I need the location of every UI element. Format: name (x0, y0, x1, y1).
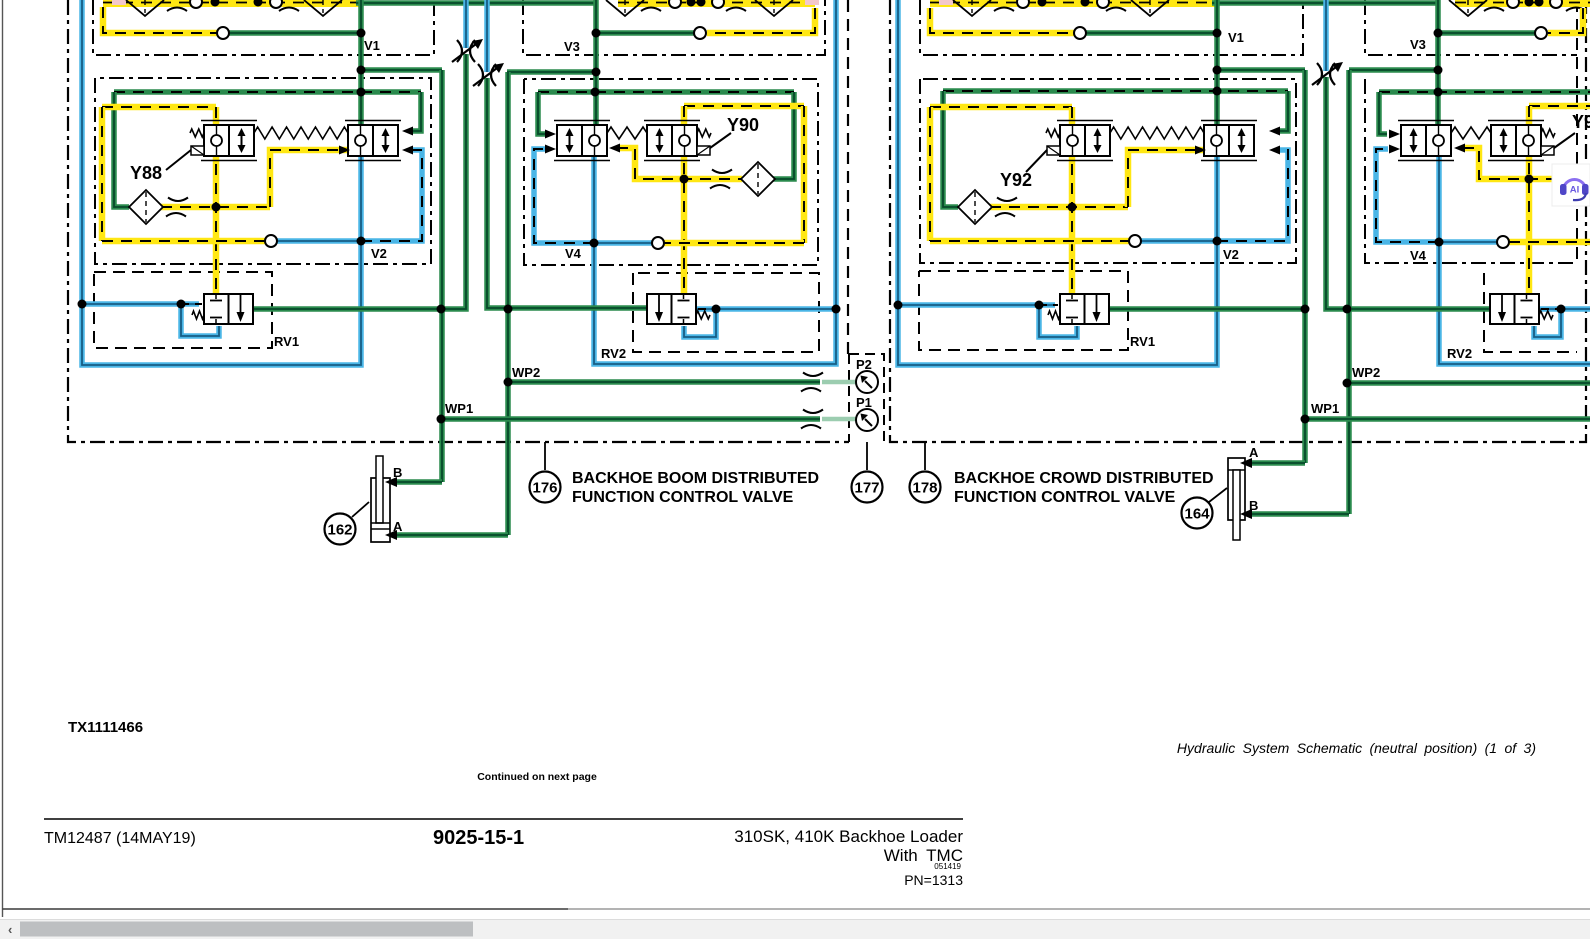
svg-text:176: 176 (532, 480, 557, 497)
wire pilot to main spool col3 (1128, 150, 1206, 207)
wire yellow right vertical col2 (801, 106, 808, 243)
spring between spools col4 (1451, 127, 1491, 139)
spring col2 right valve (697, 129, 711, 137)
solenoid Y94 (1541, 146, 1554, 155)
svg-text:Continued on next page: Continued on next page (477, 771, 597, 783)
relief valve RV1 col1 (204, 294, 253, 324)
node RV2 loop junction col4 (1557, 305, 1566, 314)
check ball V3 col4 (1535, 27, 1547, 39)
wire cylinder A riser col3 (1302, 70, 1308, 463)
wire RV1 drain loop col1 (181, 304, 219, 336)
check ball V1 col3 (1074, 27, 1086, 39)
wire WP2 box A (508, 379, 820, 385)
node V2 top junction col3 (1213, 87, 1222, 96)
filter half col3 a (953, 0, 991, 16)
svg-text:TM12487 (14MAY19): TM12487 (14MAY19) (44, 830, 196, 847)
wire Y92 pilot vertical col3 (1069, 107, 1076, 294)
check ball V2 col3 (1129, 235, 1141, 247)
junction col2 top a (687, 0, 696, 7)
wire RV2 outlet col4 (1539, 306, 1590, 312)
wire coupling cyan stub A1 (463, 0, 469, 48)
junction col2 top b (697, 0, 706, 7)
pilot operated valve col3 left (Y92 spool) (1057, 121, 1113, 161)
svg-text:P1: P1 (856, 395, 872, 410)
wire Y90 pilot top col2 (684, 103, 804, 110)
wire Y92 pilot top col3 (930, 104, 1072, 111)
node pilot junction col4 (1525, 175, 1534, 184)
junction col1 top a (211, 0, 220, 7)
svg-text:WP2: WP2 (512, 365, 540, 380)
wire WP1 box B (1305, 416, 1590, 422)
wire main supply vertical col1 upper (358, 0, 364, 125)
svg-text:310SK, 410K Backhoe Loader: 310SK, 410K Backhoe Loader (734, 827, 963, 846)
quick coupling col2 (473, 63, 504, 86)
restrictor arcs col3 top a (994, 0, 1016, 11)
node RV2 loop junction col2 (712, 305, 721, 314)
svg-text:RV2: RV2 (1447, 346, 1472, 361)
top yellow band black dash col1 (103, 2, 360, 4)
V2 section box col3 (920, 79, 1296, 263)
svg-text:A: A (393, 519, 403, 534)
wire main cyan vertical col2 (591, 156, 597, 243)
check ball col4 top b (1550, 0, 1562, 8)
filter half col1 b (304, 0, 342, 16)
check ball V1 col1 (217, 27, 229, 39)
port arrow cyan col1 (402, 146, 413, 155)
check ball col1 top a (190, 0, 202, 8)
svg-text:051419: 051419 (934, 862, 961, 871)
wire filter riser col2 (773, 92, 794, 179)
V4 section box col2 (524, 79, 818, 265)
wire Y94 pilot vertical col4 (1526, 106, 1533, 294)
wire V2 top dashed green col3 (943, 88, 1288, 94)
wire pilot yellow V1 col1 (103, 7, 217, 33)
svg-text:WP2: WP2 (1352, 365, 1380, 380)
spring RV1 col3 (1048, 311, 1060, 319)
node RV1 out junction col3 (1301, 305, 1310, 314)
wire Y88 pilot top col1 (102, 104, 216, 111)
spring col1 left valve (190, 129, 204, 137)
cylinder 164 (backhoe crowd) (1228, 458, 1245, 540)
RV2 box col4 (1484, 273, 1577, 352)
restrictor col3 V2 (995, 198, 1017, 217)
cylinder 162 (backhoe boom) (371, 456, 390, 542)
pilot operated valve col4 right (Y94 spool) (1488, 121, 1544, 161)
leader 176 (544, 442, 546, 470)
wire pilot to main spool col4 (1463, 148, 1590, 179)
svg-text:V4: V4 (565, 246, 582, 261)
wire V4 top dashed green col4 (1379, 89, 1590, 95)
node bottom junction col2 (590, 239, 599, 248)
wire pilot to main spool col2 (617, 148, 742, 179)
pink component stub col2 (805, 0, 819, 5)
svg-text:RV2: RV2 (601, 346, 626, 361)
junction col4 top a (1525, 0, 1534, 7)
leader 178 (924, 442, 926, 470)
node RV1 out junction (437, 305, 446, 314)
svg-text:V1: V1 (364, 38, 380, 53)
col4 sub-box right dashed edge (1576, 0, 1578, 263)
callout 164 (1182, 498, 1213, 529)
wire RV2 outlet dashed part col2 (698, 308, 716, 310)
wire RV1 inlet col3 (898, 302, 1055, 308)
node RV1 inlet junction col1 (78, 300, 87, 309)
restrictor arcs col3 top b (1106, 0, 1128, 11)
wire V4 top dashed green col2 (538, 89, 794, 95)
port arrow yellow into main spool col3 (1195, 146, 1206, 155)
restrictor WP1 (801, 410, 823, 429)
wire RV1 inlet dashed part col3 (1039, 304, 1058, 306)
restrictor arcs col1 top b (279, 0, 301, 11)
wire RV1 drain loop col3 (1039, 305, 1077, 337)
spring between spools col3 (1110, 127, 1204, 139)
wire bottom cyan col4 (1439, 239, 1497, 245)
wire to V4 port col2 (538, 92, 546, 134)
svg-text:V1: V1 (1228, 30, 1244, 45)
port arrow green col2 (545, 130, 556, 139)
callout 177 (852, 472, 883, 503)
wire dashed cyan to port col2 (534, 149, 594, 243)
pilot operated valve col1 left (Y88 spool) (201, 121, 257, 161)
wire WP1 box A (441, 416, 820, 422)
solenoid Y90 (697, 146, 710, 155)
node V4 top junction col2 (591, 88, 600, 97)
check ball col4 top a (1507, 0, 1519, 8)
pink component stub col1 (112, 0, 126, 5)
wire work port V1 col1 (229, 30, 361, 36)
port arrow cyan col3 (1269, 146, 1280, 155)
svg-text:Y92: Y92 (1000, 170, 1032, 190)
wire V2 left green drop col3 (943, 91, 958, 207)
check ball V2 col1 (265, 235, 277, 247)
svg-text:B: B (393, 465, 402, 480)
spring between spools col2 (607, 127, 647, 139)
wire coupling cyan stub A2 (484, 0, 490, 72)
check ball col3 top a (1017, 0, 1029, 8)
callout 162 (325, 514, 356, 545)
pilot operated valve col2 right (Y90 spool) (644, 121, 700, 161)
filter F col2 (741, 162, 775, 196)
svg-text:B: B (1249, 498, 1258, 513)
node pilot junction col1 (212, 203, 221, 212)
wire filter to pilot col3 (990, 204, 1128, 211)
wire V3 to outer link col2 (507, 69, 596, 75)
svg-text:AI: AI (1570, 185, 1580, 196)
svg-text:WP1: WP1 (445, 401, 473, 416)
wire work port V1 col3 (1086, 30, 1217, 36)
svg-text:V3: V3 (564, 39, 580, 54)
quick coupling col1 (452, 39, 483, 62)
leader Y92 (1026, 150, 1047, 172)
wire V1 to outer link col3 (1217, 67, 1305, 73)
junction col3 top b (1081, 0, 1090, 7)
svg-text:V3: V3 (1410, 37, 1426, 52)
wire work port V3 col4 (1438, 30, 1535, 36)
junction col4 top b (1535, 0, 1544, 7)
filter F col3 (958, 190, 992, 224)
port arrow cyan col4 (1389, 145, 1400, 154)
box A right dashed border (847, 0, 849, 354)
restrictor arcs col2 top b (726, 0, 748, 11)
check ball V4 col4 (1497, 236, 1509, 248)
node bottom junction col4 (1435, 238, 1444, 247)
wire RV1 out col3 (1109, 306, 1305, 312)
crowd control valve outer boundary box B (890, 0, 1586, 442)
footer rule (44, 818, 963, 820)
svg-text:RV1: RV1 (1130, 334, 1155, 349)
wire return loop col4 (1439, 242, 1590, 364)
wire pump supply link col3-col4 top (1212, 0, 1438, 6)
pressure test port box P1 P2 (849, 354, 884, 442)
svg-text:FUNCTION CONTROL VALVE: FUNCTION CONTROL VALVE (572, 489, 794, 506)
svg-text:A: A (1249, 445, 1259, 460)
spring col4 right valve (1541, 129, 1555, 137)
node link junction col1 (357, 66, 366, 75)
spring RV2 col4 (1539, 311, 1553, 319)
node WP2 junction box B (1343, 379, 1352, 388)
wire RV1 inlet dashed part col1 (181, 303, 202, 305)
wire WP1 faded (822, 417, 857, 422)
RV1 box col1 (94, 272, 272, 348)
node WP1 junction box A (437, 415, 446, 424)
relief valve RV2 col2 (647, 294, 696, 324)
check ball col1 top b (270, 0, 282, 8)
wire bottom yellow col1 (102, 238, 265, 245)
wire RV2 outlet col2 (696, 306, 836, 312)
wire bottom yellow col3 (930, 238, 1129, 245)
wire pilot to main spool col1 (270, 150, 350, 207)
wire bottom yellow col4 (1509, 239, 1590, 246)
main spool valve col1 (boom section 1) (345, 121, 401, 161)
wire to V4 port col4 (1379, 92, 1387, 134)
restrictor col2 V4 (710, 170, 732, 189)
svg-text:PN=1313: PN=1313 (904, 872, 963, 888)
solenoid Y92 (1047, 146, 1060, 155)
node RV1 loop junction col1 (177, 300, 186, 309)
node bottom junction col1 (357, 237, 366, 246)
arrow into 164 port B (1240, 509, 1252, 519)
wire yellow left vertical col1 (99, 107, 106, 241)
wire main supply vertical col2 upper (593, 0, 599, 125)
top yellow pilot band col2 (618, 0, 815, 7)
relief valve RV2 col4 (1490, 294, 1539, 324)
V1 section box col3 (920, 0, 1303, 55)
wire RV2 drain loop col4 (1534, 309, 1561, 337)
restrictor WP2 (801, 373, 823, 392)
junction col1 top b (254, 0, 263, 7)
wire cylinder A riser col2 (505, 72, 511, 535)
svg-text:P2: P2 (856, 357, 872, 372)
node V1 junction col3 (1213, 29, 1222, 38)
wire V2 top dashed green col1 (114, 89, 421, 95)
svg-text:BACKHOE CROWD DISTRIBUTED: BACKHOE CROWD DISTRIBUTED (954, 470, 1214, 487)
node WP2 junction box A (504, 378, 513, 387)
V1 section box col1 (93, 0, 434, 55)
svg-text:WP1: WP1 (1311, 401, 1339, 416)
wire WP2 box B (1349, 380, 1590, 386)
leader 164 (1209, 488, 1227, 502)
wire coupling cyan stub B1 (1323, 0, 1329, 71)
port arrow yellow into main spool col1 (339, 146, 350, 155)
filter half col2 b (755, 0, 793, 16)
node RV1 inlet junction col3 (894, 301, 903, 310)
page frame bottom border (3, 908, 569, 910)
wire filter to pilot col1 (161, 204, 270, 211)
port arrow yellow into main spool col4 (1454, 144, 1465, 153)
V2 section box col1 (95, 78, 431, 264)
wire main cyan vertical col1 (358, 156, 364, 241)
wire to V2 port B col1 (413, 92, 421, 131)
wire main supply vertical col4 upper (1435, 0, 1441, 125)
node link junction col3 (1213, 66, 1222, 75)
spring col3 left valve (1046, 129, 1060, 137)
check ball V4 col2 (652, 237, 664, 249)
wire main cyan vertical col3 (1214, 156, 1220, 241)
svg-text:FUNCTION CONTROL VALVE: FUNCTION CONTROL VALVE (954, 489, 1176, 506)
wire V1 to outer link col1 (361, 67, 442, 73)
V4 section box col4 (1365, 79, 1577, 263)
wire bottom cyan col2 (594, 240, 652, 246)
wire dashed cyan to port A col3 (1217, 150, 1288, 241)
svg-text:178: 178 (912, 480, 937, 497)
wire pilot yellow V3 col2 (707, 8, 815, 33)
wire to cylinder 162 port A (392, 532, 508, 538)
pressure gauge P2 (856, 371, 878, 393)
wire Y88 pilot vertical col1 (213, 107, 220, 294)
wire yellow left vertical col3 (927, 107, 934, 241)
wire RV1 out to coupling col1 (253, 54, 466, 309)
callout 178 (910, 472, 941, 503)
restrictor arcs col1 top a (167, 0, 189, 11)
node bottom junction col3 (1213, 237, 1222, 246)
restrictor arcs col4 top b (1566, 0, 1588, 11)
arrow into 162 port B (385, 477, 397, 487)
node V2 top junction col1 (357, 88, 366, 97)
wire to cylinder 164 port A (1247, 460, 1305, 466)
top yellow pilot band col1 (103, 0, 360, 7)
wire return loop col3 (898, 0, 1217, 365)
svg-text:‹: ‹ (8, 922, 12, 937)
node pilot junction col3 (1068, 203, 1077, 212)
wire dashed cyan to port A col1 (361, 150, 422, 241)
node V1 junction col1 (357, 29, 366, 38)
filter half col1 a (126, 0, 164, 16)
svg-text:BACKHOE BOOM DISTRIBUTED: BACKHOE BOOM DISTRIBUTED (572, 470, 819, 487)
port arrow green col1 (402, 127, 413, 136)
wire V2 left green drop col1 (114, 92, 129, 207)
main spool valve col2 (boom section 2) (554, 121, 610, 161)
top yellow pilot band col3 (930, 0, 1217, 7)
port arrow green col3 (1269, 127, 1280, 136)
AI chat widget overlay (1552, 164, 1590, 206)
boom control valve outer boundary box A (68, 0, 849, 442)
wire to cylinder 164 port B (1247, 511, 1349, 517)
wire dashed cyan to port col4 (1376, 149, 1439, 242)
svg-text:Y88: Y88 (130, 163, 162, 183)
junction col3 top a (1038, 0, 1047, 7)
callout 176 (530, 472, 561, 503)
main spool valve col4 (crowd section 2) (1398, 121, 1454, 161)
svg-text:TX1111466: TX1111466 (68, 719, 143, 736)
wire pilot yellow V1 col3 (930, 8, 1074, 33)
wire V3 to outer link col4 (1349, 67, 1438, 73)
main spool valve col3 (crowd section 1) (1201, 121, 1257, 161)
svg-text:162: 162 (327, 522, 352, 539)
wire main supply vertical col3 upper (1214, 0, 1220, 125)
scrollbar thumb (20, 922, 473, 937)
restrictor arcs col2 top a (641, 0, 663, 11)
wire return loop col2 (594, 0, 836, 364)
pressure gauge P1 (856, 409, 878, 431)
node WP1 junction box B (1301, 415, 1310, 424)
svg-text:Y9: Y9 (1572, 112, 1590, 132)
node RV2 out junction col2 (832, 305, 841, 314)
V3 section box col2 (523, 0, 825, 55)
wire RV2 drain loop col2 (684, 309, 716, 337)
check ball col3 top b (1097, 0, 1109, 8)
svg-text:V4: V4 (1410, 248, 1427, 263)
check ball V3 col2 (694, 27, 706, 39)
svg-text:164: 164 (1184, 506, 1210, 523)
RV2 box col2 (633, 273, 819, 352)
svg-text:9025-15-1: 9025-15-1 (433, 827, 524, 849)
svg-text:Hydraulic System Schematic (ne: Hydraulic System Schematic (neutral posi… (1177, 740, 1536, 756)
svg-text:177: 177 (854, 480, 879, 497)
filter half col2 a (606, 0, 644, 16)
wire cylinder B riser col1 (439, 70, 445, 482)
wire bottom cyan col3 (1141, 238, 1217, 244)
check ball col2 top a (669, 0, 681, 8)
wire work port V3 col2 (596, 30, 694, 36)
spring between spools col1 (254, 127, 348, 139)
filter F col1 (129, 190, 163, 224)
leader Y90 (710, 133, 731, 148)
leader 162 (352, 502, 369, 517)
wire Y94 pilot top col4 (1529, 103, 1590, 110)
node V3 junction col2 (592, 29, 601, 38)
solenoid Y88 (191, 146, 204, 155)
leader Y94 (1554, 133, 1575, 148)
port arrow green col4 (1389, 130, 1400, 139)
leader Y88 (166, 150, 191, 170)
svg-text:V2: V2 (371, 246, 387, 261)
wire pilot yellow V3 col4 (1548, 8, 1583, 33)
filter half col3 b (1131, 0, 1169, 16)
RV1 box col3 (919, 271, 1128, 350)
node RV2 in junction (504, 305, 513, 314)
node RV2 in junction col4 (1343, 305, 1352, 314)
port arrow cyan col2 (545, 145, 556, 154)
wire cylinder B riser col4 (1346, 70, 1352, 514)
wire coupling to RV2 col4 (1326, 77, 1492, 309)
wire WP2 faded (822, 380, 857, 385)
node link junction col2 (592, 68, 601, 77)
svg-text:Y90: Y90 (727, 115, 759, 135)
restrictor arcs col4 top a (1484, 0, 1506, 11)
quick coupling col4 (1312, 62, 1343, 85)
top yellow pilot band col4 (1455, 0, 1590, 7)
leader 177 (866, 442, 868, 470)
node pilot junction col2 (680, 175, 689, 184)
wire return loop col1 (82, 0, 361, 365)
spring RV2 col2 (696, 311, 710, 319)
wire coupling to RV2 col2 (487, 78, 650, 308)
port arrow yellow into main spool col2 (609, 144, 620, 153)
scrollbar track (0, 919, 1590, 939)
pressure test port box left edge (848, 354, 850, 442)
page frame left border (2, 0, 4, 917)
svg-text:V2: V2 (1223, 247, 1239, 262)
